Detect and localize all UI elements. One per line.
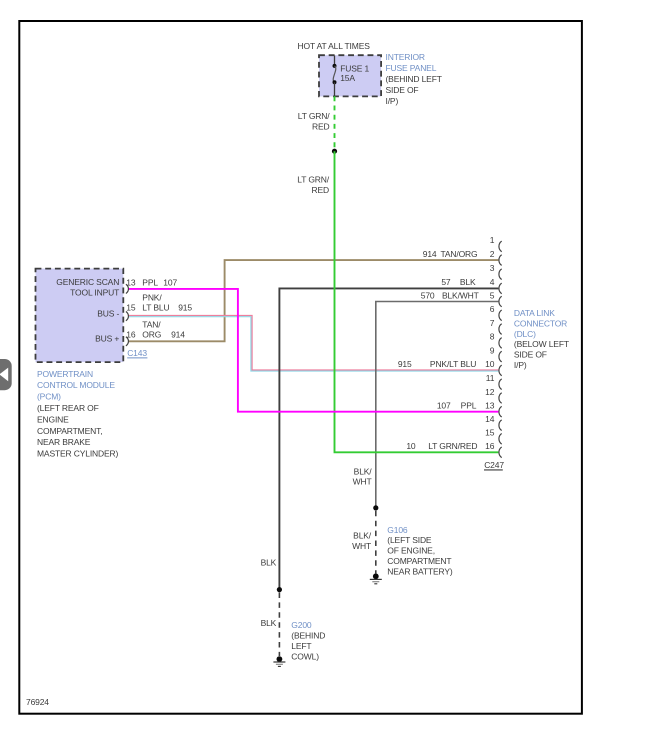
fuse value label FUSE 1 15A <box>340 64 369 83</box>
svg-text:BLK: BLK <box>460 277 476 287</box>
svg-text:NEAR BRAKE: NEAR BRAKE <box>37 437 91 447</box>
svg-text:1: 1 <box>490 235 495 245</box>
svg-text:COMPARTMENT,: COMPARTMENT, <box>37 426 102 436</box>
DLC pin 1 <box>490 235 502 252</box>
svg-text:PPL: PPL <box>142 278 158 288</box>
label BLK/WHT upper <box>353 466 373 486</box>
connector C247 link <box>484 460 504 470</box>
fuse box: interior fuse panel <box>319 55 381 96</box>
svg-text:107: 107 <box>437 401 451 411</box>
svg-text:WHT: WHT <box>352 541 371 551</box>
PCM pin 13 wire label PPL 107 <box>142 278 177 288</box>
DLC pin 5 <box>421 290 502 307</box>
svg-text:BLK: BLK <box>261 557 277 567</box>
DLC pin 4 <box>441 277 501 294</box>
svg-text:9: 9 <box>490 345 495 355</box>
DLC pin 9 <box>490 345 502 362</box>
svg-text:914: 914 <box>171 330 185 340</box>
svg-text:915: 915 <box>398 359 412 369</box>
PCM label block <box>37 369 119 459</box>
interior fuse panel label <box>386 52 442 106</box>
label BLK/WHT lower <box>352 531 372 551</box>
svg-text:INTERIOR: INTERIOR <box>386 52 425 62</box>
svg-text:LT GRN/: LT GRN/ <box>297 174 329 184</box>
DLC pin 8 <box>490 332 502 349</box>
svg-text:13: 13 <box>126 278 136 288</box>
svg-text:2: 2 <box>490 249 495 259</box>
junction dot on BLK <box>277 587 282 592</box>
svg-text:TOOL INPUT: TOOL INPUT <box>70 287 119 297</box>
wire BLK from DLC pin 4 down to G200 <box>279 288 498 589</box>
svg-text:8: 8 <box>490 332 495 342</box>
DLC pin 6 <box>490 304 502 321</box>
DLC label block <box>514 308 569 370</box>
DLC pin 13 <box>437 401 502 418</box>
svg-text:15: 15 <box>126 303 136 313</box>
PCM pin 16 <box>126 330 136 346</box>
label LT GRN/RED upper <box>298 111 330 131</box>
svg-text:C247: C247 <box>484 460 504 470</box>
svg-text:LT BLU: LT BLU <box>142 303 169 313</box>
wire TAN/ORG from PCM pin 16 to DLC pin 2 <box>128 260 498 341</box>
svg-text:PNK/LT BLU: PNK/LT BLU <box>430 359 476 369</box>
svg-text:(LEFT REAR OF: (LEFT REAR OF <box>37 403 99 413</box>
G200 label block <box>291 620 325 662</box>
svg-text:(PCM): (PCM) <box>37 392 61 402</box>
svg-text:BUS +: BUS + <box>95 333 119 343</box>
svg-text:4: 4 <box>490 277 495 287</box>
svg-text:SIDE OF: SIDE OF <box>514 350 547 360</box>
svg-text:LT GRN/: LT GRN/ <box>298 111 330 121</box>
svg-text:6: 6 <box>490 304 495 314</box>
svg-text:BLK/: BLK/ <box>354 466 373 476</box>
fuse F1 15A symbol <box>333 56 337 97</box>
svg-text:15A: 15A <box>340 73 355 83</box>
svg-text:7: 7 <box>490 318 495 328</box>
DLC pin 2 <box>423 249 502 266</box>
junction dot on BLK/WHT <box>373 505 378 510</box>
PCM pin 15 wire label PNK/LT BLU 915 <box>142 292 192 312</box>
svg-text:PPL: PPL <box>461 401 477 411</box>
svg-text:WHT: WHT <box>353 477 372 487</box>
svg-text:PNK/: PNK/ <box>142 292 162 302</box>
svg-text:I/P): I/P) <box>386 96 399 106</box>
svg-text:G200: G200 <box>291 620 312 630</box>
wire LT GRN/RED solid to DLC pin 16 <box>335 151 499 452</box>
svg-text:BLK: BLK <box>261 618 277 628</box>
svg-text:SIDE OF: SIDE OF <box>386 85 419 95</box>
svg-text:76924: 76924 <box>26 697 49 707</box>
svg-text:10: 10 <box>485 359 495 369</box>
DLC pin 3 <box>490 263 502 280</box>
DLC pin 10 <box>398 359 502 376</box>
svg-text:570: 570 <box>421 290 435 300</box>
svg-text:BLK/: BLK/ <box>353 531 372 541</box>
svg-text:12: 12 <box>485 387 495 397</box>
svg-text:ORG: ORG <box>142 330 161 340</box>
PCM pin 15 <box>126 303 136 321</box>
connector C143 link <box>127 348 147 358</box>
label LT GRN/RED lower <box>297 174 329 195</box>
PCM pin 16 wire label TAN/ORG 914 <box>142 320 185 340</box>
svg-text:914: 914 <box>423 249 437 259</box>
svg-text:FUSE PANEL: FUSE PANEL <box>386 63 437 73</box>
svg-text:LEFT: LEFT <box>291 641 311 651</box>
svg-text:I/P): I/P) <box>514 360 527 370</box>
svg-text:(DLC): (DLC) <box>514 329 536 339</box>
svg-text:NEAR BATTERY): NEAR BATTERY) <box>387 566 453 576</box>
svg-text:COWL): COWL) <box>291 651 319 661</box>
svg-text:LT GRN/RED: LT GRN/RED <box>428 441 477 451</box>
svg-text:C143: C143 <box>127 348 147 358</box>
PCM box labels <box>56 277 119 343</box>
svg-text:(LEFT SIDE: (LEFT SIDE <box>387 535 432 545</box>
ground symbol G106 <box>370 573 382 583</box>
PCM box: generic scan tool input <box>36 269 124 363</box>
svg-text:POWERTRAIN: POWERTRAIN <box>37 369 93 379</box>
nav tab arrow <box>0 359 12 390</box>
wire PNK/LT BLU from PCM pin 15 to DLC pin 10 <box>128 316 498 372</box>
wire LT GRN/RED dashed from fuse <box>334 96 336 149</box>
svg-text:RED: RED <box>312 121 330 131</box>
junction dot on LT GRN/RED <box>332 149 337 154</box>
DLC pin 16 <box>406 441 501 458</box>
svg-text:GENERIC SCAN: GENERIC SCAN <box>56 277 119 287</box>
svg-text:57: 57 <box>441 277 451 287</box>
svg-text:HOT AT ALL TIMES: HOT AT ALL TIMES <box>298 41 371 51</box>
wire BLK dashed to ground G200 <box>278 593 280 657</box>
svg-text:16: 16 <box>485 441 495 451</box>
ground symbol G200 <box>273 656 285 666</box>
svg-text:3: 3 <box>490 263 495 273</box>
svg-text:5: 5 <box>490 290 495 300</box>
DLC pin 7 <box>490 318 502 335</box>
svg-text:G106: G106 <box>387 525 408 535</box>
svg-text:DATA LINK: DATA LINK <box>514 308 555 318</box>
DLC pin 11 <box>486 373 502 390</box>
svg-text:915: 915 <box>178 303 192 313</box>
wire BLK/WHT dashed to ground G106 <box>375 511 377 574</box>
svg-text:11: 11 <box>486 373 495 383</box>
PCM pin 13 <box>126 278 136 294</box>
svg-text:COMPARTMENT: COMPARTMENT <box>387 556 451 566</box>
svg-text:ENGINE: ENGINE <box>37 414 69 424</box>
DLC pin 12 <box>485 387 502 404</box>
svg-text:13: 13 <box>485 401 495 411</box>
svg-text:CONTROL MODULE: CONTROL MODULE <box>37 380 115 390</box>
svg-text:BLK/WHT: BLK/WHT <box>442 290 479 300</box>
svg-text:TAN/ORG: TAN/ORG <box>440 249 477 259</box>
svg-text:107: 107 <box>163 278 177 288</box>
svg-text:(BEHIND LEFT: (BEHIND LEFT <box>386 74 442 84</box>
svg-text:RED: RED <box>312 185 330 195</box>
svg-text:16: 16 <box>126 330 136 340</box>
svg-text:(BEHIND: (BEHIND <box>291 630 325 640</box>
svg-text:15: 15 <box>485 428 495 438</box>
svg-text:14: 14 <box>485 414 495 424</box>
svg-text:OF ENGINE,: OF ENGINE, <box>387 546 435 556</box>
svg-text:MASTER CYLINDER): MASTER CYLINDER) <box>37 449 119 459</box>
svg-text:(BELOW LEFT: (BELOW LEFT <box>514 339 569 349</box>
svg-text:CONNECTOR: CONNECTOR <box>514 318 567 328</box>
DLC pin 14 <box>485 414 502 431</box>
wire PPL from PCM pin 13 to DLC pin 13 <box>128 289 498 412</box>
G106 label block <box>387 525 453 577</box>
svg-text:10: 10 <box>406 441 416 451</box>
wire BLK/WHT from DLC pin 5 down to G106 <box>376 302 499 508</box>
DLC pin 15 <box>485 428 502 445</box>
svg-text:TAN/: TAN/ <box>142 320 161 330</box>
svg-text:BUS -: BUS - <box>97 308 119 318</box>
